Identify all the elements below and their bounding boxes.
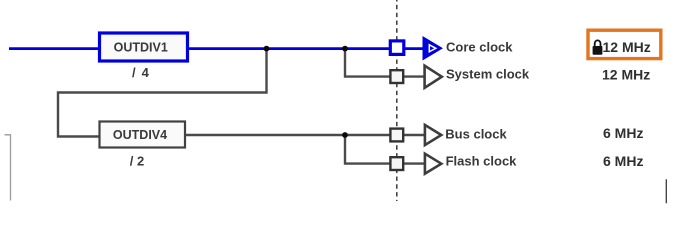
- arrow Bus clock (outline): [425, 125, 441, 145]
- svg-text:/ 2: / 2: [130, 154, 144, 169]
- divider OUTDIV4: [100, 122, 186, 148]
- node A junction dot: [264, 46, 270, 52]
- wire: gray branch from node B to System clock square: [345, 49, 425, 77]
- svg-text:6 MHz: 6 MHz: [603, 125, 643, 141]
- cursor tick mark bottom right: [665, 179, 667, 203]
- node B junction dot: [342, 46, 348, 52]
- square node Core clock: [390, 41, 404, 55]
- arrow Flash clock (outline): [425, 154, 441, 174]
- svg-text:12 MHz: 12 MHz: [603, 39, 651, 55]
- wire: partial stub wire at left edge: [5, 135, 11, 201]
- svg-text:Flash clock: Flash clock: [446, 153, 518, 168]
- wire: gray branch from node A to OUTDIV4 input: [58, 49, 267, 137]
- wire: gray branch from node C to Flash clock square: [345, 135, 425, 164]
- node C junction dot: [342, 132, 348, 138]
- highlight box around locked frequency: [588, 30, 661, 58]
- svg-text:Bus clock: Bus clock: [445, 126, 507, 141]
- arrow Core clock (active, blue filled): [423, 36, 444, 61]
- square node System clock: [390, 70, 403, 83]
- divider OUTDIV1: [100, 33, 188, 61]
- svg-text:OUTDIV1: OUTDIV1: [114, 40, 168, 54]
- svg-text:6 MHz: 6 MHz: [603, 153, 643, 169]
- svg-text:/ 4: / 4: [132, 65, 150, 80]
- lock icon on Core frequency: [593, 40, 603, 54]
- svg-text:OUTDIV4: OUTDIV4: [113, 128, 167, 142]
- arrow System clock (outline): [425, 66, 442, 88]
- svg-text:Core clock: Core clock: [446, 39, 513, 54]
- svg-text:System clock: System clock: [446, 67, 530, 82]
- wire: OUTDIV4 output to Bus clock square: [185, 134, 425, 136]
- wire: blue main clock wire: [9, 47, 423, 50]
- square node Flash clock: [390, 157, 403, 170]
- square node Bus clock: [390, 129, 403, 142]
- svg-text:12 MHz: 12 MHz: [602, 66, 650, 82]
- dashed domain-boundary line: [396, 0, 398, 201]
